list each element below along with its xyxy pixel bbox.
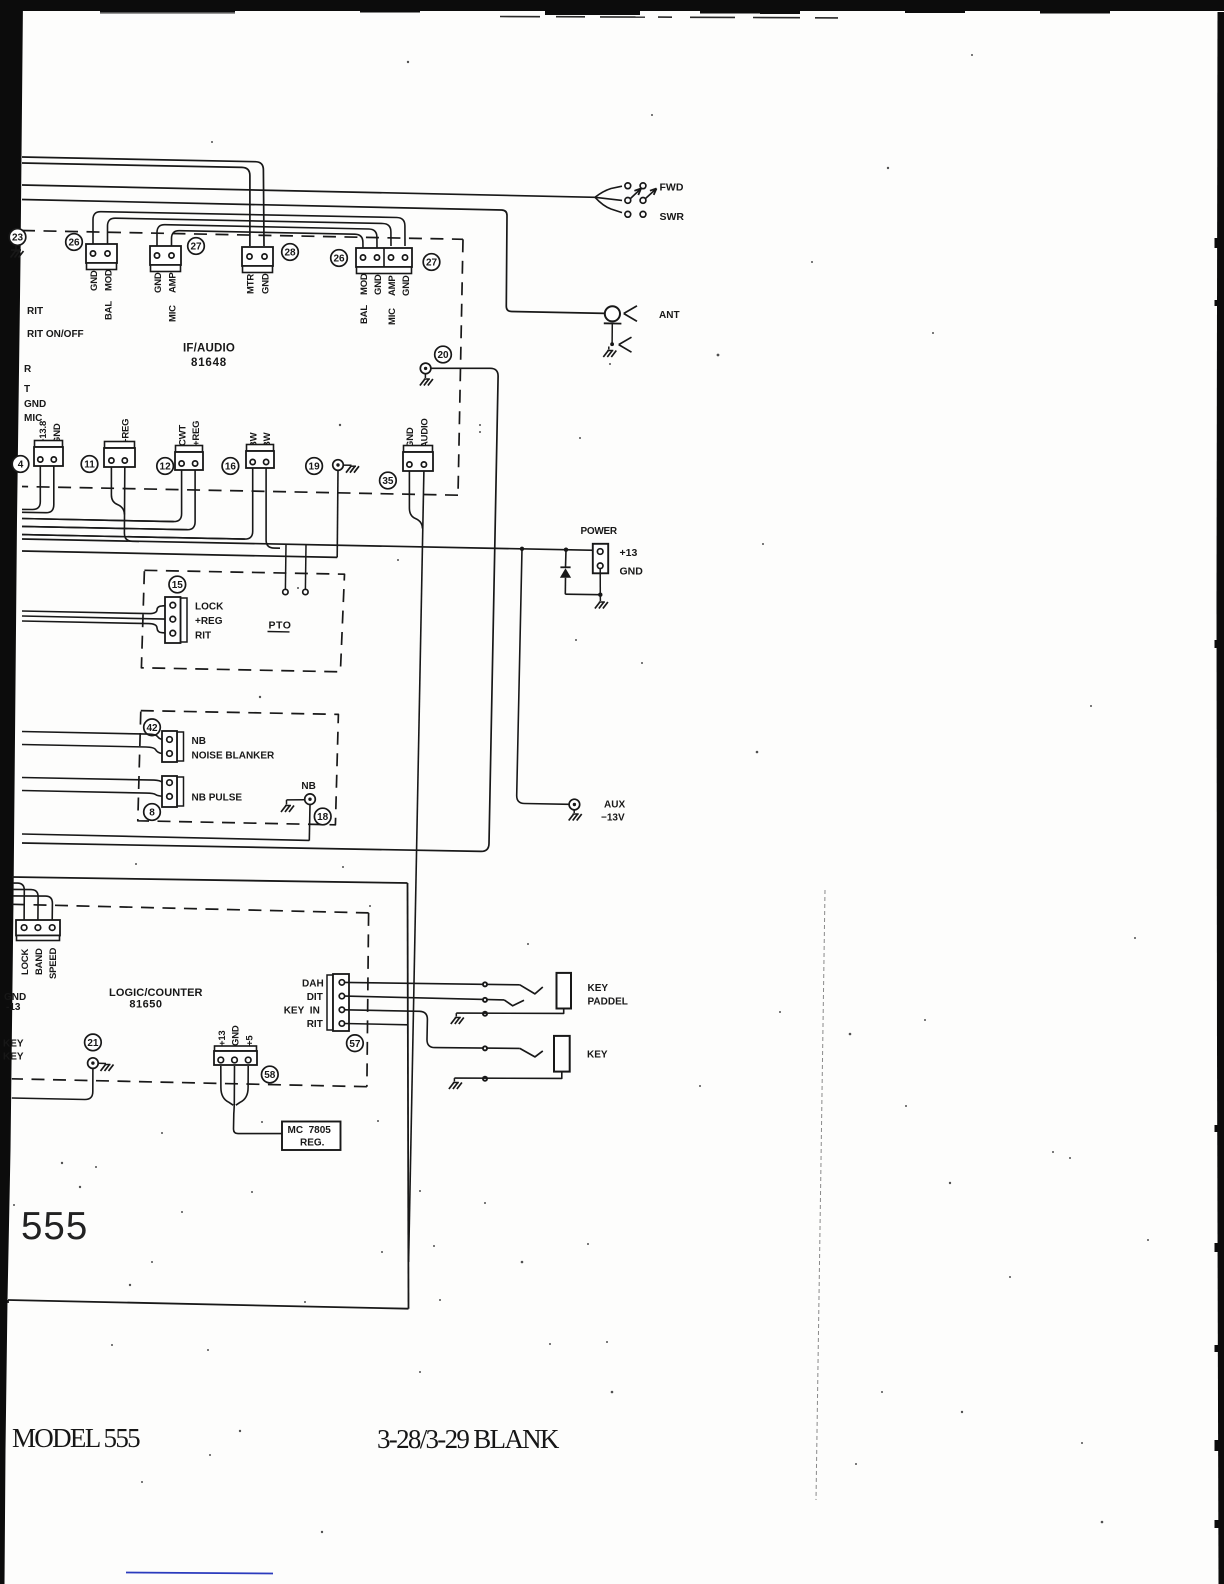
svg-text:LOCK: LOCK bbox=[20, 949, 31, 975]
svg-text:KEY IN: KEY IN bbox=[284, 1006, 320, 1017]
svg-text:IF/AUDIO: IF/AUDIO bbox=[183, 343, 235, 355]
svg-text:81648: 81648 bbox=[191, 357, 227, 369]
svg-text:3-28/3-29 BLANK: 3-28/3-29 BLANK bbox=[377, 1424, 560, 1454]
svg-text:DAH: DAH bbox=[302, 979, 324, 990]
svg-text:LOGIC/COUNTER: LOGIC/COUNTER bbox=[109, 987, 203, 999]
svg-text:MIC: MIC bbox=[387, 308, 398, 325]
svg-text:-13: -13 bbox=[6, 1002, 21, 1013]
svg-text:GND: GND bbox=[231, 1025, 242, 1046]
svg-text:DIT: DIT bbox=[307, 992, 323, 1003]
svg-text:+13: +13 bbox=[620, 547, 638, 559]
svg-text:20: 20 bbox=[437, 350, 449, 361]
svg-text:GND: GND bbox=[620, 566, 644, 578]
svg-text:GND: GND bbox=[24, 399, 46, 410]
svg-text:RIT: RIT bbox=[307, 1019, 323, 1030]
svg-text:+13: +13 bbox=[217, 1030, 228, 1046]
svg-text:MODEL 555: MODEL 555 bbox=[12, 1423, 140, 1453]
svg-text:AMP: AMP bbox=[168, 272, 179, 293]
svg-text:GND: GND bbox=[89, 270, 100, 291]
svg-text:PADDEL: PADDEL bbox=[588, 997, 628, 1008]
svg-text:KEY: KEY bbox=[3, 1039, 24, 1050]
svg-text:−13V: −13V bbox=[601, 813, 625, 824]
svg-text:18: 18 bbox=[317, 812, 329, 823]
svg-text:GND: GND bbox=[401, 275, 412, 296]
svg-text:NOISE BLANKER: NOISE BLANKER bbox=[192, 751, 276, 762]
svg-text:81650: 81650 bbox=[129, 999, 162, 1011]
svg-text:+5: +5 bbox=[244, 1035, 255, 1046]
svg-text:SPEED: SPEED bbox=[48, 947, 59, 979]
svg-text:GND: GND bbox=[153, 272, 164, 293]
svg-text:MIC: MIC bbox=[168, 305, 179, 322]
svg-text:KEY: KEY bbox=[3, 1052, 24, 1063]
svg-text:57: 57 bbox=[349, 1039, 361, 1050]
svg-text:28: 28 bbox=[284, 248, 296, 259]
svg-text:11: 11 bbox=[84, 460, 95, 471]
svg-text:16: 16 bbox=[225, 462, 237, 473]
svg-text:26: 26 bbox=[333, 254, 345, 265]
svg-text:+REG: +REG bbox=[191, 421, 202, 446]
svg-text:21: 21 bbox=[87, 1038, 99, 1049]
svg-text:AUDIO: AUDIO bbox=[420, 418, 431, 448]
svg-text:23: 23 bbox=[12, 233, 24, 244]
svg-text:BAL: BAL bbox=[104, 301, 115, 320]
svg-text:+REG: +REG bbox=[195, 616, 223, 627]
svg-text:NB PULSE: NB PULSE bbox=[192, 793, 243, 804]
svg-text:PTO: PTO bbox=[269, 620, 292, 632]
svg-text:AMP: AMP bbox=[387, 275, 398, 296]
svg-text:GND: GND bbox=[261, 273, 272, 294]
svg-text:KEY: KEY bbox=[588, 983, 609, 994]
svg-text:LOCK: LOCK bbox=[195, 602, 224, 613]
svg-text:26: 26 bbox=[68, 238, 80, 249]
svg-text:SWR: SWR bbox=[660, 211, 685, 223]
svg-text:KEY: KEY bbox=[587, 1050, 608, 1061]
svg-text:FWD: FWD bbox=[660, 182, 684, 194]
svg-text:19: 19 bbox=[309, 462, 321, 473]
svg-text:RIT: RIT bbox=[195, 631, 211, 642]
svg-text:NB: NB bbox=[301, 781, 315, 792]
svg-text:15: 15 bbox=[172, 580, 184, 591]
svg-text:BAND: BAND bbox=[34, 948, 45, 975]
svg-text:27: 27 bbox=[426, 258, 438, 269]
svg-text:8: 8 bbox=[149, 808, 155, 819]
svg-text:AUX: AUX bbox=[604, 800, 625, 811]
svg-text:12: 12 bbox=[160, 462, 172, 473]
svg-text:CWT: CWT bbox=[178, 425, 189, 446]
svg-text:POWER: POWER bbox=[581, 526, 618, 537]
svg-text:ANT: ANT bbox=[659, 310, 680, 321]
svg-text:MTR: MTR bbox=[246, 274, 257, 294]
svg-text:35: 35 bbox=[382, 476, 394, 487]
svg-text:58: 58 bbox=[264, 1070, 276, 1081]
svg-text:T: T bbox=[24, 384, 30, 395]
svg-text:MOD: MOD bbox=[104, 269, 115, 291]
svg-text:+REG: +REG bbox=[121, 419, 132, 444]
svg-text:42: 42 bbox=[146, 723, 158, 734]
svg-text:R: R bbox=[24, 364, 32, 375]
svg-text:REG.: REG. bbox=[300, 1138, 325, 1149]
svg-text:GND: GND bbox=[373, 274, 384, 295]
svg-text:BAL: BAL bbox=[359, 305, 370, 324]
svg-text:27: 27 bbox=[190, 242, 202, 253]
svg-text:RIT ON/OFF: RIT ON/OFF bbox=[27, 329, 84, 340]
svg-text:RIT: RIT bbox=[27, 306, 43, 317]
svg-text:MOD: MOD bbox=[359, 273, 370, 295]
svg-text:NB: NB bbox=[192, 736, 206, 747]
svg-text:MC 7805: MC 7805 bbox=[288, 1125, 332, 1136]
svg-text:4: 4 bbox=[18, 460, 24, 471]
svg-text:555: 555 bbox=[21, 1205, 88, 1248]
